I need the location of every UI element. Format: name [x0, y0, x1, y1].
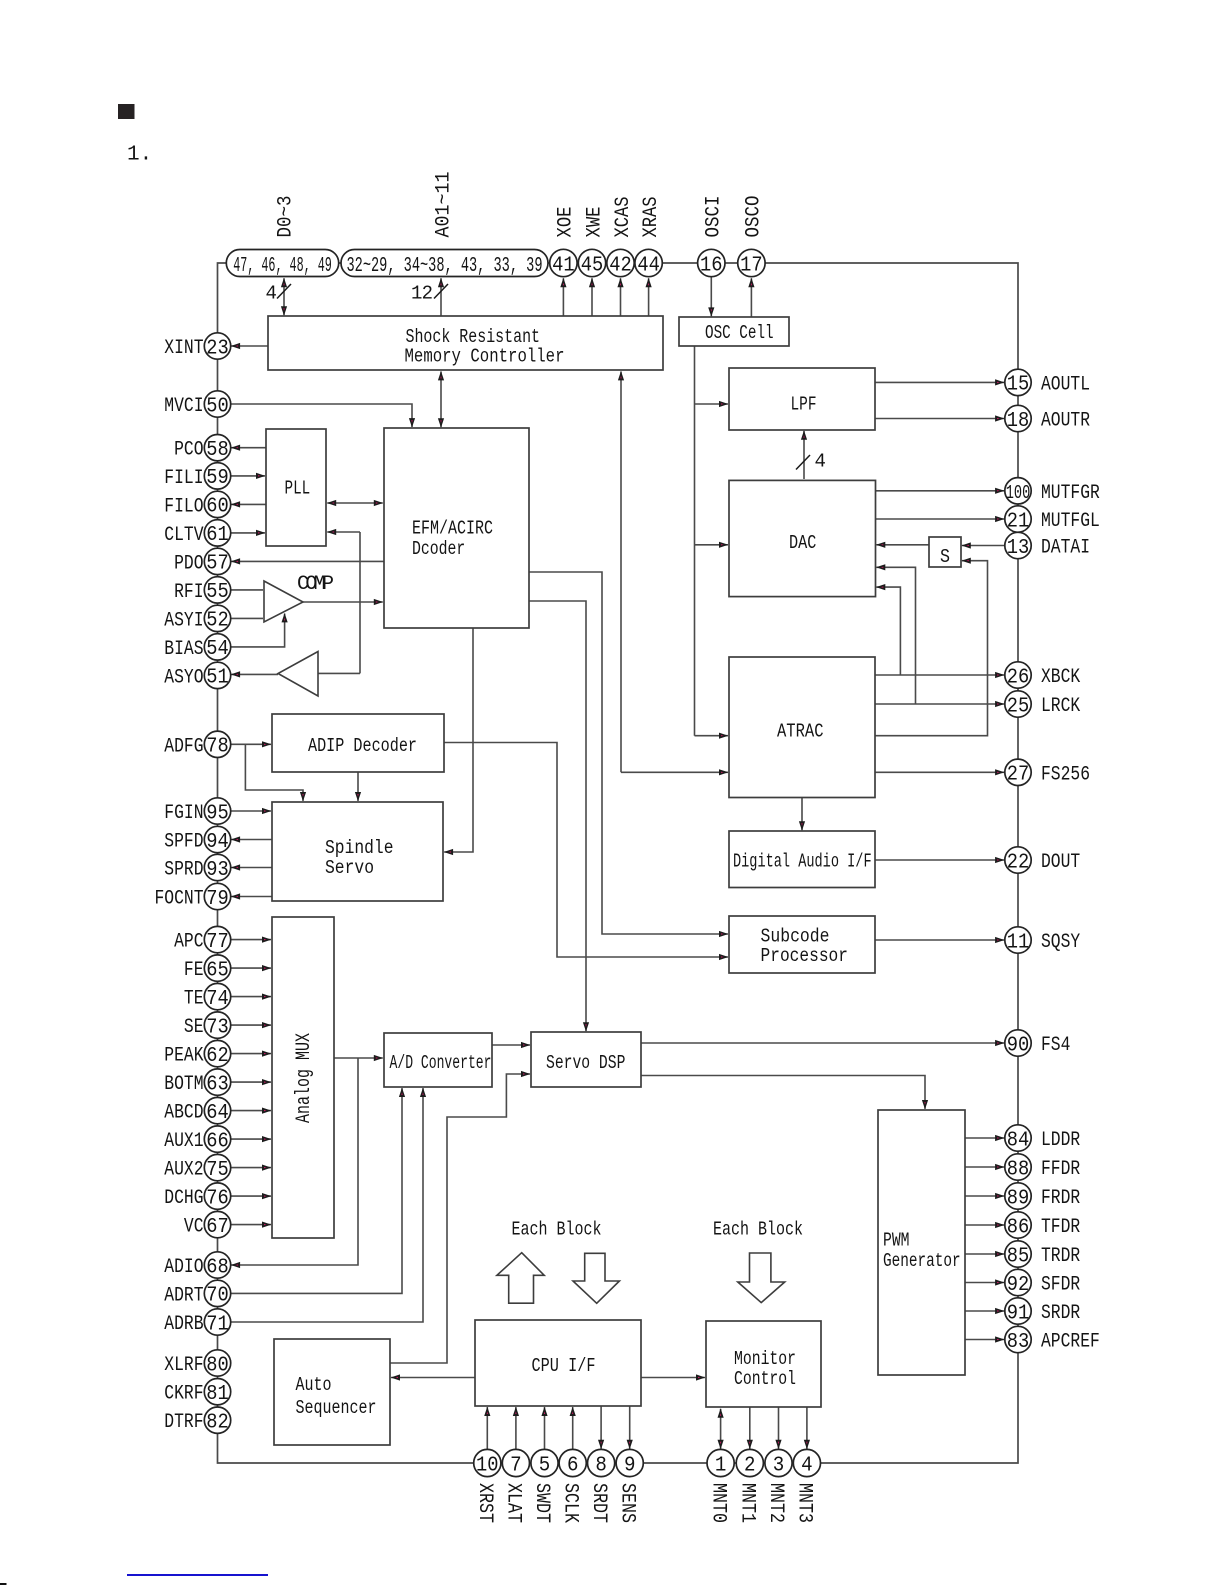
svg-text:XCAS: XCAS [612, 197, 635, 238]
svg-text:1.: 1. [127, 144, 152, 167]
svg-text:FOCNT: FOCNT [155, 888, 204, 911]
svg-text:ADRB: ADRB [164, 1313, 203, 1336]
svg-text:FFDR: FFDR [1041, 1158, 1080, 1181]
svg-text:OSCO: OSCO [743, 196, 766, 238]
svg-text:93: 93 [206, 859, 229, 882]
svg-text:MUTFGR: MUTFGR [1041, 482, 1100, 505]
svg-text:XRAS: XRAS [640, 197, 663, 238]
svg-text:BOTM: BOTM [164, 1073, 203, 1096]
svg-text:Processor: Processor [761, 945, 849, 967]
svg-text:FILO: FILO [164, 495, 203, 518]
svg-text:A01~11: A01~11 [432, 172, 455, 238]
svg-text:4: 4 [266, 283, 277, 305]
svg-text:2: 2 [744, 1454, 756, 1477]
svg-text:OSCI: OSCI [703, 196, 726, 238]
svg-text:67: 67 [206, 1216, 229, 1239]
svg-text:1: 1 [715, 1454, 727, 1477]
svg-text:47, 46, 48, 49: 47, 46, 48, 49 [233, 255, 332, 278]
svg-text:SCLK: SCLK [558, 1483, 581, 1523]
svg-text:50: 50 [206, 395, 229, 418]
svg-text:23: 23 [206, 337, 229, 360]
svg-text:XLAT: XLAT [502, 1483, 525, 1523]
svg-text:AOUTL: AOUTL [1041, 373, 1090, 396]
svg-text:4: 4 [801, 1454, 813, 1477]
svg-text:MNT2: MNT2 [764, 1483, 787, 1523]
svg-text:Digital Audio I/F: Digital Audio I/F [733, 851, 872, 873]
svg-text:XWE: XWE [583, 207, 606, 238]
svg-text:4: 4 [815, 451, 826, 473]
svg-text:27: 27 [1007, 764, 1030, 787]
svg-text:CKRF: CKRF [164, 1383, 203, 1406]
svg-text:Auto: Auto [296, 1374, 332, 1396]
svg-text:XBCK: XBCK [1041, 666, 1080, 689]
svg-text:LRCK: LRCK [1041, 695, 1080, 718]
svg-text:APC: APC [174, 931, 203, 954]
svg-text:XRST: XRST [473, 1483, 496, 1523]
svg-text:FS4: FS4 [1041, 1034, 1070, 1057]
svg-text:ATRAC: ATRAC [777, 720, 824, 742]
svg-text:PEAK: PEAK [164, 1045, 203, 1068]
svg-text:63: 63 [206, 1073, 229, 1096]
svg-text:42: 42 [609, 254, 632, 277]
svg-text:Subcode: Subcode [761, 925, 830, 947]
svg-text:85: 85 [1007, 1245, 1030, 1268]
svg-text:XINT: XINT [164, 337, 203, 360]
svg-text:D0~3: D0~3 [274, 196, 297, 238]
svg-text:9: 9 [624, 1454, 636, 1477]
svg-text:APCREF: APCREF [1041, 1331, 1100, 1354]
svg-text:Servo DSP: Servo DSP [546, 1052, 625, 1074]
svg-text:AOUTR: AOUTR [1041, 410, 1090, 433]
svg-text:RFI: RFI [174, 581, 203, 604]
svg-text:FS256: FS256 [1041, 763, 1090, 786]
svg-text:58: 58 [206, 439, 229, 462]
svg-text:94: 94 [206, 831, 229, 854]
svg-text:3: 3 [773, 1454, 785, 1477]
svg-text:Memory Controller: Memory Controller [405, 346, 565, 368]
svg-text:MNT3: MNT3 [793, 1483, 816, 1523]
svg-text:MNT1: MNT1 [736, 1483, 759, 1523]
svg-text:Dcoder: Dcoder [412, 538, 465, 560]
svg-text:11: 11 [1007, 931, 1030, 954]
svg-text:64: 64 [206, 1102, 229, 1125]
svg-text:SRDR: SRDR [1041, 1302, 1080, 1325]
svg-text:7: 7 [510, 1454, 522, 1477]
svg-text:91: 91 [1007, 1302, 1030, 1325]
svg-text:COMP: COMP [297, 573, 334, 596]
svg-text:13: 13 [1007, 537, 1030, 560]
svg-text:MNT0: MNT0 [706, 1483, 729, 1523]
svg-text:Monitor: Monitor [734, 1348, 796, 1370]
svg-text:80: 80 [206, 1354, 229, 1377]
svg-text:SE: SE [184, 1016, 204, 1039]
svg-text:DCHG: DCHG [164, 1187, 203, 1210]
svg-text:TE: TE [184, 988, 204, 1011]
svg-text:EFM/ACIRC: EFM/ACIRC [412, 518, 493, 540]
svg-text:74: 74 [206, 988, 229, 1011]
svg-text:61: 61 [206, 524, 229, 547]
svg-text:Generator: Generator [883, 1250, 961, 1272]
svg-text:MUTFGL: MUTFGL [1041, 510, 1100, 533]
svg-text:82: 82 [206, 1412, 229, 1435]
svg-text:FRDR: FRDR [1041, 1187, 1080, 1210]
svg-text:59: 59 [206, 467, 229, 490]
svg-text:TRDR: TRDR [1041, 1245, 1080, 1268]
svg-text:ABCD: ABCD [164, 1102, 203, 1125]
svg-text:MVCI: MVCI [164, 395, 203, 418]
svg-text:OSC Cell: OSC Cell [705, 322, 774, 344]
svg-text:95: 95 [206, 802, 229, 825]
svg-text:65: 65 [206, 959, 229, 982]
svg-text:FILI: FILI [164, 467, 203, 490]
svg-text:SENS: SENS [615, 1483, 638, 1523]
svg-text:PLL: PLL [285, 477, 311, 499]
svg-text:BIAS: BIAS [164, 638, 203, 661]
svg-text:SQSY: SQSY [1041, 931, 1080, 954]
svg-text:90: 90 [1007, 1034, 1030, 1057]
svg-text:CPU I/F: CPU I/F [532, 1355, 596, 1377]
svg-text:88: 88 [1007, 1158, 1030, 1181]
svg-text:AUX2: AUX2 [164, 1159, 203, 1182]
svg-text:SFDR: SFDR [1041, 1274, 1080, 1297]
svg-text:PDO: PDO [174, 552, 203, 575]
svg-text:41: 41 [552, 254, 575, 277]
svg-text:78: 78 [206, 736, 229, 759]
svg-text:TFDR: TFDR [1041, 1216, 1080, 1239]
svg-text:Sequencer: Sequencer [296, 1397, 377, 1419]
svg-text:ASYI: ASYI [164, 609, 203, 632]
svg-text:66: 66 [206, 1130, 229, 1153]
svg-text:Each Block: Each Block [512, 1219, 602, 1241]
svg-text:Shock Resistant: Shock Resistant [406, 326, 541, 348]
svg-text:ADFG: ADFG [164, 735, 203, 758]
svg-text:45: 45 [581, 254, 604, 277]
svg-text:ADIO: ADIO [164, 1256, 203, 1279]
svg-text:83: 83 [1007, 1331, 1030, 1354]
svg-text:PWM: PWM [883, 1230, 910, 1252]
svg-text:5: 5 [539, 1454, 551, 1477]
svg-text:84: 84 [1007, 1129, 1030, 1152]
svg-text:70: 70 [206, 1285, 229, 1308]
svg-text:Control: Control [734, 1368, 796, 1390]
svg-text:60: 60 [206, 496, 229, 519]
svg-text:57: 57 [206, 553, 229, 576]
svg-text:8: 8 [595, 1454, 607, 1477]
svg-text:Servo: Servo [325, 857, 374, 879]
svg-text:26: 26 [1007, 666, 1030, 689]
svg-text:81: 81 [206, 1383, 229, 1406]
svg-text:18: 18 [1007, 410, 1030, 433]
svg-text:22: 22 [1007, 851, 1030, 874]
svg-text:16: 16 [700, 254, 723, 277]
svg-text:S: S [940, 546, 950, 568]
svg-text:44: 44 [637, 254, 660, 277]
svg-text:68: 68 [206, 1256, 229, 1279]
svg-text:52: 52 [206, 610, 229, 633]
svg-text:62: 62 [206, 1045, 229, 1068]
svg-text:86: 86 [1007, 1216, 1030, 1239]
svg-text:Each Block: Each Block [713, 1219, 803, 1241]
svg-text:DAC: DAC [789, 532, 816, 554]
svg-text:100: 100 [1006, 482, 1031, 504]
svg-text:DOUT: DOUT [1041, 851, 1080, 874]
svg-text:PCO: PCO [174, 439, 203, 462]
svg-text:XOE: XOE [555, 207, 578, 238]
svg-text:25: 25 [1007, 695, 1030, 718]
svg-text:AUX1: AUX1 [164, 1130, 203, 1153]
svg-text:Analog MUX: Analog MUX [293, 1033, 316, 1123]
svg-text:12: 12 [411, 283, 433, 305]
svg-text:89: 89 [1007, 1187, 1030, 1210]
svg-text:73: 73 [206, 1016, 229, 1039]
svg-text:DTRF: DTRF [164, 1411, 203, 1434]
svg-text:CLTV: CLTV [164, 524, 203, 547]
svg-text:32~29, 34~38, 43, 33, 39: 32~29, 34~38, 43, 33, 39 [347, 255, 543, 278]
svg-text:71: 71 [206, 1313, 229, 1336]
svg-text:51: 51 [206, 667, 229, 690]
svg-text:92: 92 [1007, 1274, 1030, 1297]
svg-text:XLRF: XLRF [164, 1354, 203, 1377]
svg-text:55: 55 [206, 581, 229, 604]
svg-text:LPF: LPF [791, 394, 817, 416]
svg-text:77: 77 [206, 931, 229, 954]
svg-text:SPFD: SPFD [164, 831, 203, 854]
svg-text:15: 15 [1007, 374, 1030, 397]
svg-text:A/D Converter: A/D Converter [390, 1052, 492, 1074]
svg-text:54: 54 [206, 638, 229, 661]
svg-text:FE: FE [184, 959, 204, 982]
svg-text:SWDT: SWDT [530, 1483, 553, 1523]
svg-text:ASYO: ASYO [164, 666, 203, 689]
svg-text:17: 17 [740, 254, 763, 277]
svg-text:ADIP Decoder: ADIP Decoder [308, 735, 417, 757]
svg-text:DATAI: DATAI [1041, 537, 1090, 560]
svg-text:ADRT: ADRT [164, 1284, 203, 1307]
svg-text:75: 75 [206, 1159, 229, 1182]
svg-text:VC: VC [184, 1216, 204, 1239]
svg-text:10: 10 [476, 1454, 499, 1477]
svg-text:FGIN: FGIN [164, 802, 203, 825]
svg-text:76: 76 [206, 1187, 229, 1210]
svg-text:6: 6 [567, 1454, 579, 1477]
svg-text:21: 21 [1007, 510, 1030, 533]
svg-text:79: 79 [206, 888, 229, 911]
svg-text:Spindle: Spindle [325, 837, 394, 859]
svg-text:LDDR: LDDR [1041, 1129, 1080, 1152]
svg-text:SPRD: SPRD [164, 859, 203, 882]
svg-text:SRDT: SRDT [587, 1483, 610, 1523]
